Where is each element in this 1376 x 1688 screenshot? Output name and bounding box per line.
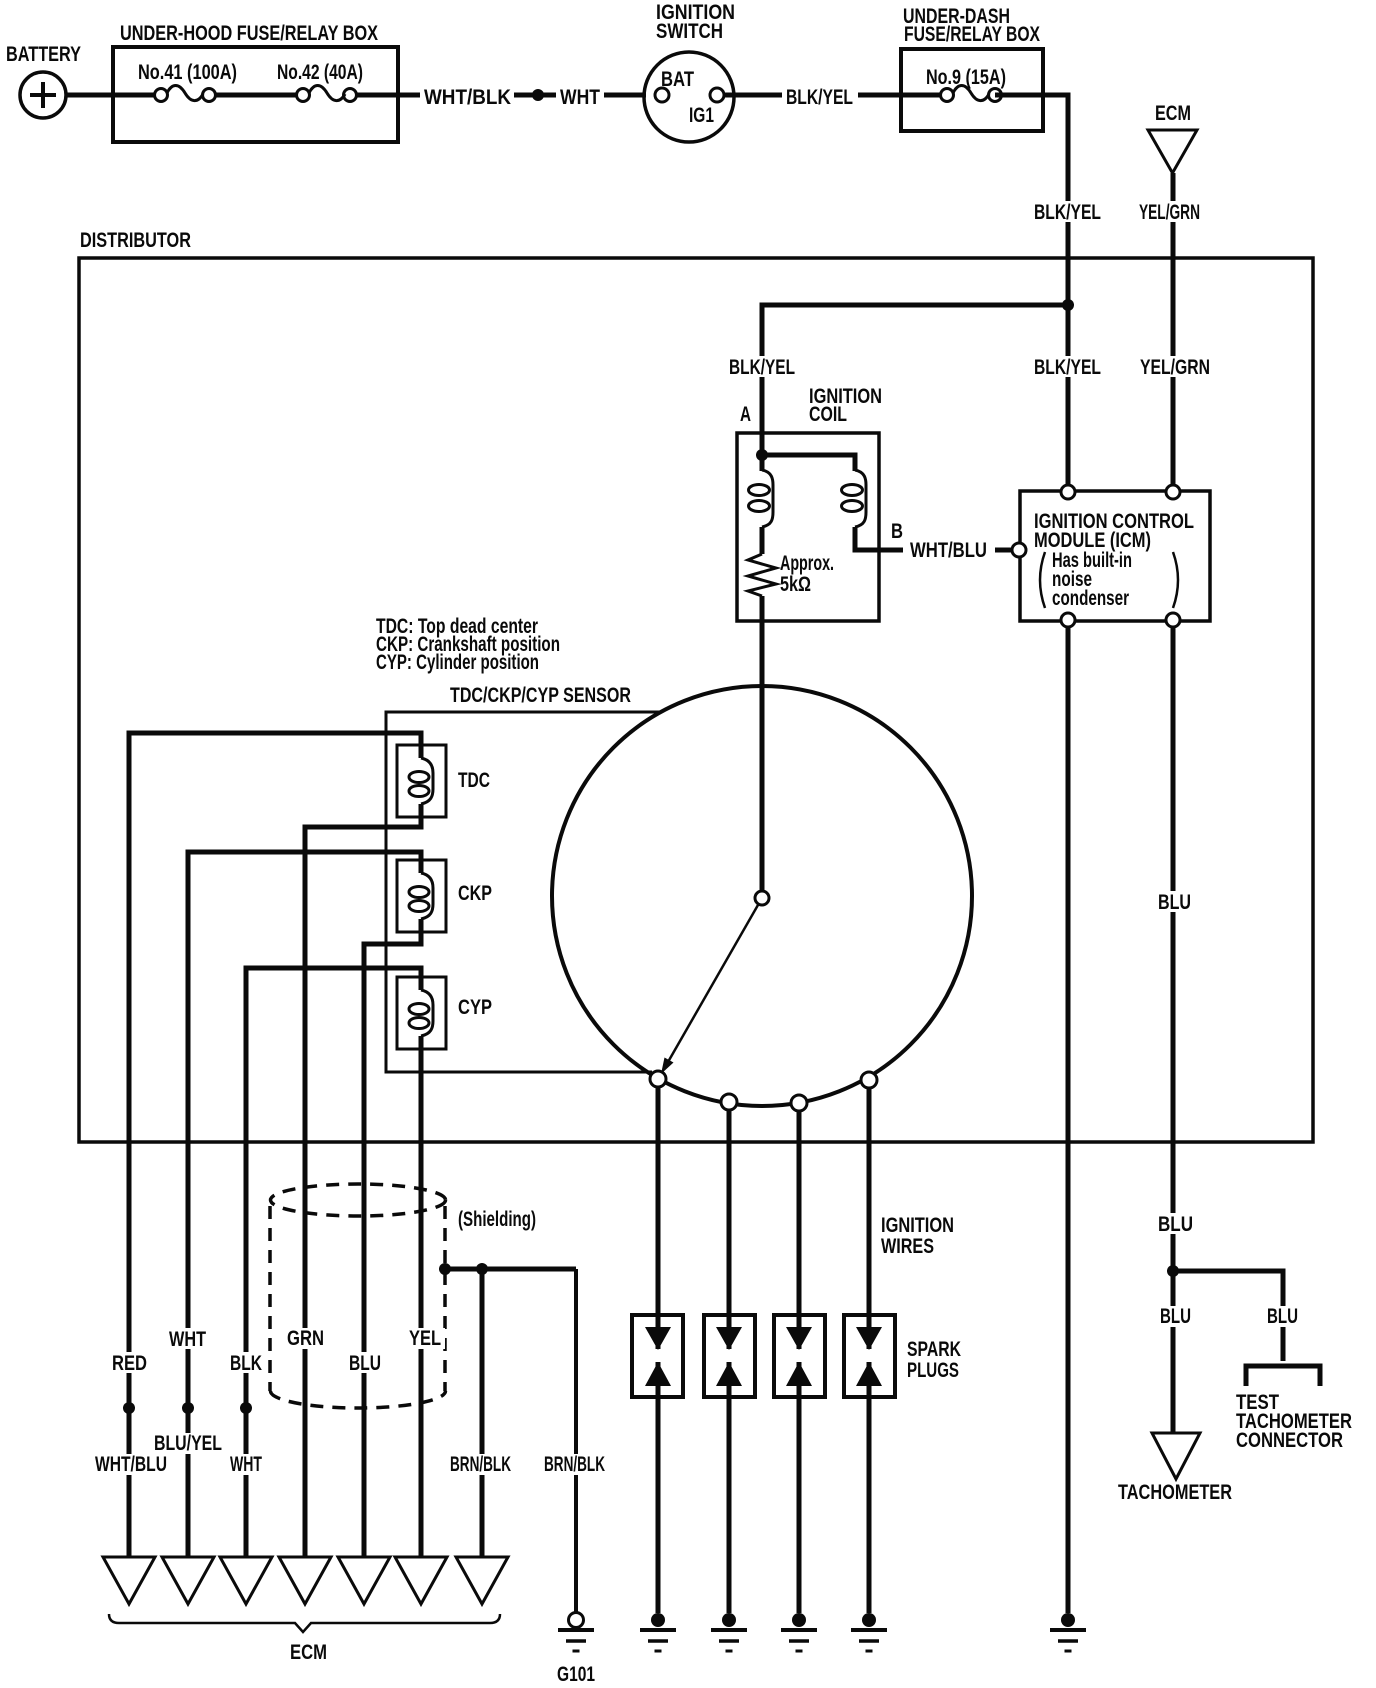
svg-text:RED: RED <box>112 1352 147 1375</box>
svg-text:B: B <box>891 520 903 543</box>
svg-text:UNDER-HOOD FUSE/RELAY BOX: UNDER-HOOD FUSE/RELAY BOX <box>120 22 378 45</box>
wire CKP top (WHT) <box>188 852 421 1557</box>
fuse No.42 40A <box>277 61 363 102</box>
rotor terminal 3 <box>791 1095 807 1111</box>
splice WHT/BLU-YEL <box>182 1402 194 1414</box>
svg-text:WHT/BLK: WHT/BLK <box>424 86 511 109</box>
wire label YEL/GRN (ICM) <box>1137 356 1213 379</box>
legend TDC/CKP/CYP <box>376 615 560 674</box>
wire label BLU/YEL <box>150 1432 226 1455</box>
svg-text:GRN: GRN <box>287 1327 324 1350</box>
ground spark plug 4 <box>851 1613 887 1651</box>
wire BLK/YEL branch to ignition coil <box>762 305 1068 455</box>
CKP pickup coil <box>397 860 492 932</box>
svg-text:(Shielding): (Shielding) <box>458 1208 536 1231</box>
svg-text:TDC/CKP/CYP SENSOR: TDC/CKP/CYP SENSOR <box>450 684 631 707</box>
svg-text:YEL: YEL <box>409 1327 441 1350</box>
wire ICM left ground <box>1066 627 1071 1613</box>
svg-text:condenser: condenser <box>1052 587 1129 610</box>
under-hood fuse/relay box <box>113 22 398 142</box>
wire WHT/BLK out of fuse box <box>350 93 420 98</box>
wire label RED <box>108 1352 151 1375</box>
ground spark plug 1 <box>640 1613 676 1651</box>
coil secondary winding <box>842 470 904 550</box>
wire label YEL <box>405 1327 445 1350</box>
fuse No.41 100A <box>138 61 237 102</box>
ground ICM <box>1050 1613 1086 1651</box>
junction <box>1062 299 1074 311</box>
wire label BRN/BLK (left) <box>446 1453 515 1476</box>
spark plug 3 <box>774 1315 825 1397</box>
fuse No.9 15A <box>926 66 1006 102</box>
wire YEL/GRN from ECM down to ICM <box>1171 173 1176 492</box>
svg-text:BLU: BLU <box>349 1352 381 1375</box>
junction dot at A <box>756 449 768 461</box>
svg-text:BLK/YEL: BLK/YEL <box>1034 201 1101 224</box>
rotor arm <box>661 898 762 1074</box>
spark plug 2 <box>704 1315 755 1397</box>
wire branch to test tachometer connector <box>1173 1271 1283 1361</box>
splice BLK/WHT <box>240 1402 252 1414</box>
wire CYP bottom (YEL) <box>419 1036 424 1557</box>
splice dot <box>532 89 544 101</box>
wire BLU from ICM <box>1171 627 1176 1433</box>
wire BRN/BLK to ECM <box>480 1269 485 1557</box>
svg-text:WHT: WHT <box>169 1328 206 1351</box>
rotor terminal 2 <box>721 1094 737 1110</box>
svg-text:Approx.: Approx. <box>780 552 834 575</box>
svg-text:WHT/BLU: WHT/BLU <box>910 539 987 562</box>
svg-text:SPARK: SPARK <box>907 1338 961 1361</box>
wire label BLK/YEL (upper) <box>1031 201 1104 224</box>
shielding cylinder <box>270 1184 536 1408</box>
ignition wire 3 <box>797 1110 802 1613</box>
tachometer connector triangle <box>1118 1433 1232 1504</box>
wire switch to BLK/YEL <box>724 93 782 98</box>
ignition switch <box>644 1 735 142</box>
svg-text:CONNECTOR: CONNECTOR <box>1236 1429 1343 1452</box>
svg-text:CYP: Cylinder position: CYP: Cylinder position <box>376 651 539 674</box>
svg-text:BAT: BAT <box>661 68 694 91</box>
ground G101 <box>557 1613 595 1687</box>
wire label WHT <box>165 1328 210 1351</box>
label BLU (tach branch) <box>1156 1305 1195 1328</box>
svg-text:IG1: IG1 <box>689 104 714 127</box>
wire BLK/YEL into under-dash box <box>858 93 947 98</box>
svg-text:TDC: TDC <box>458 769 490 792</box>
svg-text:WIRES: WIRES <box>881 1235 934 1258</box>
svg-text:BRN/BLK: BRN/BLK <box>450 1453 511 1476</box>
ICM terminal pins <box>1061 485 1075 499</box>
ignition coil <box>737 385 882 621</box>
svg-text:A: A <box>740 403 751 426</box>
svg-text:WHT/BLU: WHT/BLU <box>95 1453 167 1476</box>
wire label WHT (lower) <box>226 1453 266 1476</box>
svg-text:No.42 (40A): No.42 (40A) <box>277 61 363 84</box>
svg-text:BLU: BLU <box>1158 891 1191 914</box>
svg-text:BLU/YEL: BLU/YEL <box>154 1432 222 1455</box>
wire label GRN <box>283 1327 328 1350</box>
svg-text:COIL: COIL <box>809 403 847 426</box>
wire BLK/YEL vertical down to ICM <box>995 95 1068 492</box>
wire label BLK/YEL (coil) <box>726 356 798 379</box>
test tachometer connector <box>1236 1366 1352 1452</box>
svg-text:BLK/YEL: BLK/YEL <box>786 86 853 109</box>
wire label BRN/BLK (right) <box>540 1453 609 1476</box>
svg-text:5kΩ: 5kΩ <box>780 573 811 596</box>
label BLU above junction <box>1155 1213 1196 1236</box>
splice RED/WHT-BLU <box>123 1402 135 1414</box>
wire TDC top (RED) <box>129 733 421 1557</box>
wire between fuses <box>209 93 303 98</box>
junction on shield <box>439 1263 451 1275</box>
svg-text:BLK/YEL: BLK/YEL <box>1034 356 1101 379</box>
TDC pickup coil <box>397 745 490 817</box>
svg-text:BLU: BLU <box>1158 1213 1193 1236</box>
svg-text:WHT: WHT <box>560 86 600 109</box>
wire WHT/BLU to ICM <box>995 548 1012 553</box>
wire label BLK <box>226 1352 266 1375</box>
svg-text:FUSE/RELAY BOX: FUSE/RELAY BOX <box>904 23 1040 46</box>
wire CYP top (BLK) <box>246 968 421 1557</box>
svg-text:CYP: CYP <box>458 996 492 1019</box>
shield drain wire to G101 <box>445 1267 576 1272</box>
ignition wire 1 <box>656 1086 661 1613</box>
svg-text:WHT: WHT <box>230 1453 262 1476</box>
ignition control module ICM <box>1020 491 1210 621</box>
under-dash fuse/relay box <box>901 5 1043 131</box>
rotor center pin <box>755 891 769 905</box>
svg-text:BLK: BLK <box>230 1352 262 1375</box>
wire label YEL/GRN (upper) <box>1136 201 1204 224</box>
wire resistor to rotor <box>760 596 765 891</box>
label BLU (test branch) <box>1263 1305 1302 1328</box>
wire TDC bottom (GRN) <box>305 804 421 1557</box>
wire with splice <box>514 93 556 98</box>
spark plug 4 <box>844 1315 895 1397</box>
svg-text:ECM: ECM <box>1155 102 1191 125</box>
svg-text:BLK/YEL: BLK/YEL <box>729 356 795 379</box>
wire battery to under-hood fuse box <box>66 93 161 98</box>
ignition wire 2 <box>727 1110 732 1613</box>
resistor Approx. 5k ohm <box>748 552 834 596</box>
TDC/CKP/CYP sensor box <box>386 684 661 1072</box>
ground spark plug 2 <box>711 1613 747 1651</box>
distributor rotor circle <box>552 686 972 1106</box>
wire label WHT/BLU <box>91 1453 171 1476</box>
svg-text:YEL/GRN: YEL/GRN <box>1140 356 1210 379</box>
wire CKP bottom (BLU) <box>364 919 421 1557</box>
junction BLU <box>1167 1265 1179 1277</box>
CYP pickup coil <box>397 977 492 1049</box>
svg-text:IGNITION: IGNITION <box>881 1214 954 1237</box>
ECM brace <box>109 1614 500 1664</box>
distributor box <box>79 229 1313 1142</box>
svg-text:BLU: BLU <box>1160 1305 1191 1328</box>
svg-text:BLU: BLU <box>1267 1305 1298 1328</box>
ground spark plug 3 <box>781 1613 817 1651</box>
svg-text:TACHOMETER: TACHOMETER <box>1118 1481 1232 1504</box>
svg-text:CKP: CKP <box>458 882 492 905</box>
wire WHT to ignition switch <box>604 93 646 98</box>
ignition wire 4 <box>867 1087 872 1613</box>
svg-text:YEL/GRN: YEL/GRN <box>1139 201 1200 224</box>
svg-text:BRN/BLK: BRN/BLK <box>544 1453 605 1476</box>
svg-text:DISTRIBUTOR: DISTRIBUTOR <box>80 229 191 252</box>
ECM connector triangles <box>103 1557 155 1604</box>
svg-text:PLUGS: PLUGS <box>907 1359 959 1382</box>
coil internal wire to secondary <box>762 455 855 471</box>
spark plug 1 <box>632 1315 683 1397</box>
svg-text:BATTERY: BATTERY <box>6 43 81 66</box>
wire label BLU (in distributor) <box>1155 891 1194 914</box>
svg-text:ECM: ECM <box>290 1641 327 1664</box>
battery <box>6 43 81 118</box>
svg-text:No.41 (100A): No.41 (100A) <box>138 61 237 84</box>
coil primary winding <box>749 455 774 554</box>
svg-text:SWITCH: SWITCH <box>656 20 723 43</box>
rotor terminal 4 <box>861 1072 877 1088</box>
svg-text:G101: G101 <box>557 1663 595 1686</box>
ECM connector top right <box>1148 102 1197 173</box>
junction BRN/BLK <box>476 1263 488 1275</box>
wire label BLU <box>345 1352 385 1375</box>
rotor terminal 1 <box>650 1071 666 1087</box>
wire label BLK/YEL (ICM) <box>1031 356 1104 379</box>
